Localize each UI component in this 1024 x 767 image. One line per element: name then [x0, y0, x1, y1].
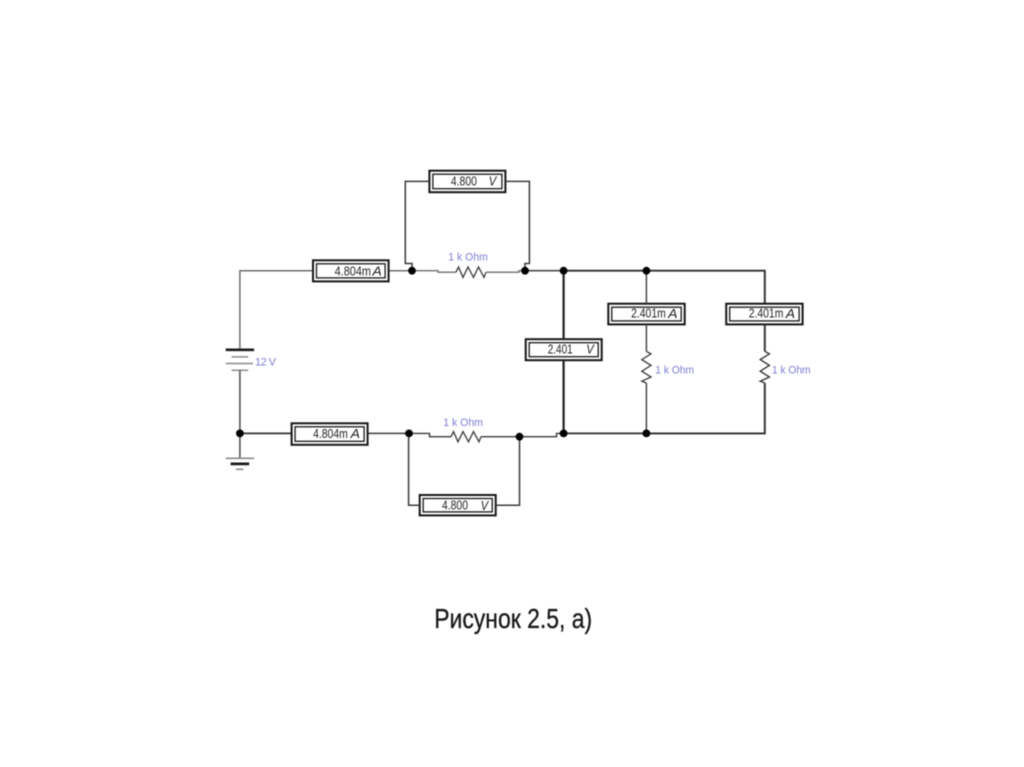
voltmeter U2 top 4.800 V — [429, 171, 505, 193]
svg-text:A: A — [371, 264, 381, 279]
svg-text:4.804m: 4.804m — [335, 263, 371, 278]
wire top horizontal left (battery to ammeter A1) — [240, 271, 313, 350]
voltmeter U4 bottom 4.800 V — [420, 495, 496, 515]
wire battery bottom to node and ground — [239, 370, 241, 458]
junction node D (646.4,271) — [643, 267, 651, 275]
wire R1 right lead to node B — [486, 271, 525, 273]
ammeter U6 middle branch 2.401m A — [608, 304, 684, 325]
wire ammeter U7 to resistor R4 — [764, 324, 766, 351]
wire bottom resistor segment with jog — [409, 433, 451, 436]
wire node B to node C — [525, 270, 564, 272]
junction node C (563.6,271) — [560, 267, 568, 275]
svg-text:4.800: 4.800 — [442, 498, 468, 513]
wire voltmeter U2 left lead — [405, 181, 429, 270]
battery V1 12 V — [226, 350, 254, 371]
label R3 1 k Ohm — [655, 365, 694, 377]
junction node E (409,433) — [405, 430, 413, 438]
ammeter U7 right branch 2.401m A — [726, 304, 802, 325]
wire voltmeter U5 top lead — [562, 271, 564, 340]
label R2 1 k Ohm — [443, 417, 483, 429]
junction node H (646.4,433) — [643, 430, 651, 438]
junction node G (563.6,433) — [560, 430, 568, 438]
svg-text:4.800: 4.800 — [451, 173, 477, 188]
junction node battery bottom (240,433) — [236, 430, 244, 438]
label R4 1 k Ohm — [772, 365, 811, 377]
resistor R4 1 kOhm vertical — [760, 351, 769, 383]
wire ammeter A2 to node E — [368, 432, 409, 434]
wire voltmeter U4 left lead — [409, 433, 420, 505]
svg-text:A: A — [667, 306, 677, 321]
svg-text:4.804m: 4.804m — [313, 426, 348, 441]
svg-text:2.401m: 2.401m — [631, 306, 666, 321]
wire top resistor segment with jog — [412, 271, 456, 273]
caption Рисунок 2.5, а) — [434, 603, 592, 634]
svg-text:V: V — [586, 342, 595, 357]
wire R2 right lead through node F to node G — [481, 433, 564, 436]
svg-text:Рисунок 2.5, а): Рисунок 2.5, а) — [434, 603, 592, 634]
wire voltmeter U4 right lead — [496, 437, 520, 506]
ammeter U1 top 4.804m A — [313, 260, 389, 281]
ground — [226, 458, 254, 469]
svg-text:1 k Ohm: 1 k Ohm — [443, 417, 483, 429]
svg-text:1 k Ohm: 1 k Ohm — [448, 252, 488, 264]
svg-text:A: A — [785, 306, 795, 321]
wire voltmeter U5 bottom lead — [562, 360, 564, 433]
svg-text:V: V — [489, 174, 498, 189]
svg-text:2.401: 2.401 — [548, 341, 573, 356]
resistor R2 1 kOhm horizontal bottom — [451, 432, 481, 442]
wire node G to node H — [564, 432, 647, 434]
wire node H to bottom-right corner — [646, 383, 764, 433]
svg-text:12 V: 12 V — [255, 356, 277, 368]
voltmeter U5 middle 2.401 V — [526, 339, 602, 360]
resistor R3 1 kOhm vertical — [642, 351, 651, 383]
wire ammeter U6 top lead — [645, 271, 647, 304]
svg-text:2.401m: 2.401m — [749, 306, 784, 321]
svg-text:V: V — [481, 498, 490, 513]
svg-text:1 k Ohm: 1 k Ohm — [772, 365, 811, 377]
wire top horizontal (ammeter A1 to node A) — [389, 270, 412, 272]
junction node B (525,271) — [521, 267, 529, 275]
wire bottom horizontal left (battery node to ammeter A2) — [240, 432, 292, 434]
wire voltmeter U2 right lead — [505, 181, 529, 270]
wire resistor R3 to bottom node H — [645, 383, 647, 433]
wire ammeter U6 to resistor R3 — [645, 324, 647, 351]
junction node A (412,271) — [408, 267, 416, 275]
junction node F (519.5,436.7) — [516, 433, 524, 441]
value label 12 V — [255, 356, 277, 368]
ammeter U3 bottom 4.804m A — [292, 423, 368, 445]
resistor R1 1 kOhm horizontal top — [456, 267, 486, 277]
svg-text:1 k Ohm: 1 k Ohm — [655, 365, 694, 377]
label R1 1 k Ohm — [448, 252, 488, 264]
wire node D to top-right corner — [646, 271, 764, 304]
svg-text:A: A — [350, 426, 360, 441]
wire node C to node D — [564, 270, 647, 272]
